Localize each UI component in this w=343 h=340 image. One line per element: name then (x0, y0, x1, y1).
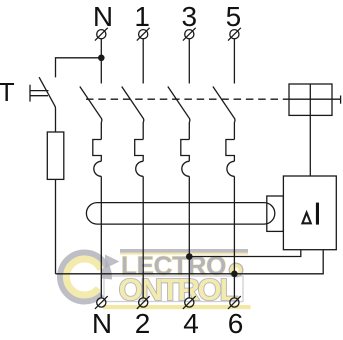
watermark yellow underline (103, 305, 251, 309)
watermark big C yellow ring (66, 259, 100, 295)
pole contact blade 1 (122, 87, 144, 140)
relay box deltaI (283, 176, 336, 250)
label delta (302, 213, 310, 224)
terminal 1 top circle (137, 28, 150, 41)
svg-text:4: 4 (183, 308, 199, 339)
svg-text:1: 1 (134, 1, 150, 32)
watermark big C grey ring (62, 254, 107, 299)
svg-text:ONTROL: ONTROL (119, 272, 238, 307)
watermark wedge (105, 255, 120, 269)
wire test return and 6 to relay (56, 250, 324, 274)
secondary winding box (267, 196, 284, 231)
watermark grey top bar (120, 249, 248, 253)
link mechanism to relay (309, 115, 311, 176)
pole contact blade 5 (213, 87, 235, 140)
pole contact blade N (80, 87, 102, 140)
mechanism cross vertical (309, 84, 311, 115)
svg-text:N: N (92, 308, 112, 339)
wire 6 lower vertical (233, 176, 235, 298)
terminal N bottom circle (95, 296, 108, 309)
resistor R test (47, 132, 64, 179)
svg-text:N: N (93, 1, 113, 32)
mechanism end tick (340, 96, 342, 104)
toroid current transformer (86, 203, 274, 225)
svg-text:T: T (0, 77, 15, 107)
terminal 3 top circle (183, 28, 196, 41)
terminal 6 bottom circle (228, 296, 241, 309)
terminal 5 top circle (228, 28, 241, 41)
pole contact blade 3 (168, 87, 190, 140)
wire 3 top vertical (188, 39, 190, 84)
magnetic element 1 (136, 161, 143, 176)
wire 5 top vertical (233, 39, 235, 84)
trip mechanism box (289, 84, 332, 115)
watermark copyright ring (229, 263, 243, 277)
terminal 2 bottom circle (137, 296, 150, 309)
svg-text:3: 3 (182, 1, 198, 32)
node dot on wire 4 (186, 253, 193, 260)
wire N top vertical (100, 39, 102, 84)
magnetic element 5 (227, 161, 234, 176)
watermark logo ELECTROCONTROL (62, 249, 251, 309)
linkage dashed line (86, 98, 289, 100)
test button actuator (30, 85, 49, 102)
wire below resistor (55, 179, 57, 273)
wire 2 lower vertical (142, 176, 144, 298)
thermal element 3 (181, 140, 190, 162)
svg-text:2: 2 (135, 308, 151, 339)
terminal N top circle (95, 28, 108, 41)
svg-text:5: 5 (226, 1, 242, 32)
thermal element 5 (226, 140, 235, 162)
wire junction to test branch (56, 58, 102, 78)
svg-text:6: 6 (228, 308, 244, 339)
magnetic element N (94, 161, 101, 176)
wire 4 to relay (189, 250, 300, 257)
wire 4 lower vertical (188, 176, 190, 298)
mechanism linkage horizontal (289, 98, 341, 100)
node dot on wire 6 (231, 271, 238, 278)
thermal element N (93, 140, 102, 162)
label I bar (316, 203, 319, 225)
node junction dot on N (98, 55, 105, 62)
terminal 4 bottom circle (183, 296, 196, 309)
wire 1 top vertical (142, 39, 144, 84)
thermal element 1 (135, 140, 144, 162)
test contact blade (39, 77, 55, 132)
watermark ONTROL grey box (104, 276, 243, 302)
magnetic element 3 (182, 161, 189, 176)
wire N lower vertical (100, 176, 102, 298)
